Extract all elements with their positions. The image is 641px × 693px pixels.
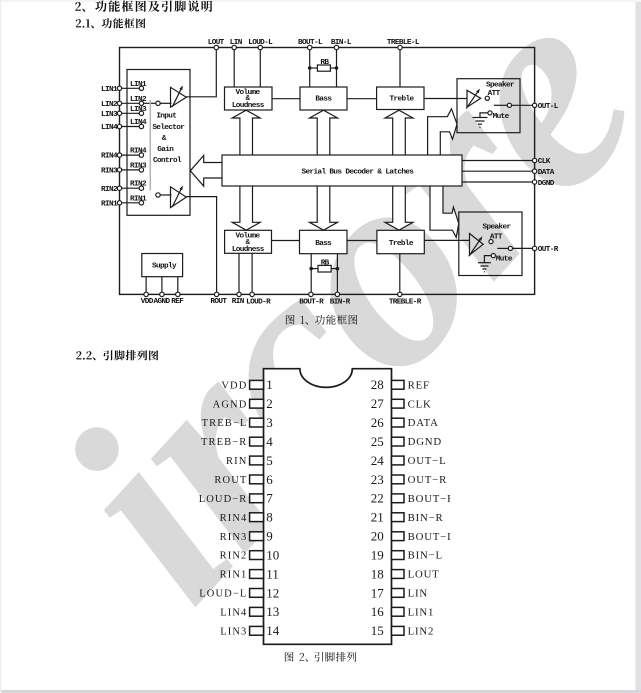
svg-text:RIN4: RIN4 (220, 513, 248, 524)
pin 8 box (250, 513, 264, 522)
svg-text:12: 12 (266, 585, 279, 600)
svg-text:28: 28 (371, 377, 384, 392)
selector contact RIN4 (139, 153, 143, 157)
svg-text:RIN4: RIN4 (101, 153, 118, 161)
svg-text:RIN2: RIN2 (101, 186, 118, 194)
svg-text:RIN1: RIN1 (130, 195, 147, 203)
svg-text:16: 16 (371, 604, 385, 619)
svg-text:Mute: Mute (496, 256, 513, 264)
svg-text:LOUD−R: LOUD−R (199, 494, 248, 505)
wire LOUD-R up to lower Volume (251, 253, 253, 294)
op-amp lower (left gain stage) (171, 186, 187, 208)
supply box (142, 254, 183, 277)
bass box lower (300, 230, 348, 253)
svg-text:RIN1: RIN1 (101, 200, 118, 208)
svg-text:RIN1: RIN1 (220, 570, 248, 581)
mute contact lower (491, 254, 495, 258)
switch blade lower (497, 247, 508, 249)
svg-text:BOUT−L: BOUT−L (408, 531, 455, 543)
svg-text:TREBLE-L: TREBLE-L (387, 39, 420, 47)
svg-text:RIN3: RIN3 (130, 162, 147, 170)
serial bus decoder and latches box (222, 155, 462, 186)
text heading 2.2 yinjiao pailie tu (76, 350, 158, 360)
svg-text:LIN4: LIN4 (130, 119, 147, 127)
terminal ROUT (214, 292, 218, 296)
terminal RIN1 (117, 201, 121, 205)
terminal RIN (237, 292, 241, 296)
terminal BIN-R (335, 292, 339, 296)
pin 4 box (250, 437, 264, 446)
svg-text:CLK: CLK (538, 158, 551, 166)
text caption figure 1 gongneng kuangtu (286, 315, 358, 325)
pin 7 box (250, 494, 264, 503)
selector bar (149, 100, 151, 191)
wire DGND (462, 181, 532, 183)
wire BOUT-R from lower Bass (310, 254, 312, 295)
wire Volume to Bass (272, 98, 300, 100)
svg-text:OUT−R: OUT−R (408, 474, 447, 486)
text heading 2 gongneng kuangtu ji yinjiao shuoming (75, 1, 212, 12)
terminal RIN4 (117, 153, 121, 157)
wire VDD (145, 277, 147, 295)
terminal OUT-L (532, 103, 536, 107)
svg-text:DGND: DGND (538, 180, 555, 188)
svg-text:7: 7 (266, 491, 273, 506)
svg-text:LOUD-R: LOUD-R (246, 299, 271, 307)
svg-text:LIN1: LIN1 (130, 81, 147, 89)
headings and captions (CJK as paths) (75, 1, 357, 662)
text caption figure 2 yinjiao pailie (285, 652, 357, 662)
svg-text:24: 24 (371, 453, 385, 468)
svg-text:25: 25 (371, 434, 384, 449)
svg-text:TREBLE-R: TREBLE-R (389, 299, 422, 307)
pin 3 box (250, 418, 264, 427)
terminal BOUT-R (309, 292, 313, 296)
terminal LOUD-L (258, 45, 262, 49)
op-amp lower speaker ATT (469, 234, 483, 257)
svg-text:8: 8 (266, 510, 273, 525)
RB resistor lower (311, 265, 337, 272)
bus arrow down to lower Treble (385, 186, 413, 230)
svg-text:TREB−L: TREB−L (202, 418, 248, 429)
svg-text:3: 3 (266, 415, 273, 430)
svg-text:6: 6 (266, 472, 273, 487)
svg-text:BIN−R: BIN−R (408, 512, 444, 524)
svg-text:LIN: LIN (408, 588, 428, 600)
svg-text:1: 1 (266, 377, 273, 392)
svg-text:ROUT: ROUT (214, 475, 247, 486)
svg-text:DGND: DGND (408, 436, 442, 448)
svg-text:2: 2 (266, 396, 273, 411)
selector contact RIN2 (139, 186, 143, 190)
terminal REF (176, 292, 180, 296)
pin 5 box (250, 456, 264, 465)
terminal LIN3 (117, 111, 121, 115)
svg-text:21: 21 (371, 510, 384, 525)
wire AGND (161, 277, 163, 295)
mute contact upper (488, 111, 492, 115)
svg-text:REF: REF (408, 379, 430, 391)
selector output contact upper (156, 101, 160, 105)
pin 2 box (250, 399, 264, 408)
pin label BOUT-L (408, 531, 455, 543)
svg-text:OUT-L: OUT-L (538, 103, 559, 111)
svg-text:LIN4: LIN4 (101, 124, 118, 132)
bus arrow right to lower speaker att (430, 186, 459, 237)
wire lower Bass to lower Treble (347, 240, 377, 242)
pin 10 box (250, 551, 264, 560)
svg-text:15: 15 (371, 623, 384, 638)
input selector and gain control box (127, 70, 190, 216)
text heading 2.1 gongneng kuangtu (76, 18, 146, 28)
svg-text:13: 13 (266, 604, 279, 619)
svg-text:5: 5 (266, 453, 273, 468)
svg-text:RB: RB (321, 259, 330, 267)
speaker ATT box upper (457, 79, 520, 133)
ground upper speaker ATT (473, 113, 488, 127)
wire selector contact to upper amp (160, 102, 171, 104)
pin 1 box (250, 380, 264, 389)
selector contact RIN1 (139, 201, 143, 205)
svg-text:23: 23 (371, 472, 384, 487)
pin 23 box (392, 475, 405, 484)
svg-text:OUT-R: OUT-R (538, 246, 559, 254)
svg-text:22: 22 (371, 491, 384, 506)
terminal BOUT-L (308, 45, 312, 49)
svg-text:AGND: AGND (213, 399, 248, 410)
wire BOUT-L down to Bass (309, 48, 311, 88)
svg-text:17: 17 (371, 585, 385, 600)
volume and loudness box upper (225, 87, 273, 110)
terminal CLK (532, 158, 536, 162)
op-amp upper speaker ATT (466, 89, 480, 109)
svg-text:DATA: DATA (408, 417, 439, 429)
node amp output upper (485, 96, 489, 100)
svg-text:DATA: DATA (538, 169, 555, 177)
svg-text:LIN2: LIN2 (408, 625, 435, 637)
terminal LIN (232, 45, 236, 49)
wire selector contact to lower amp (160, 194, 171, 196)
svg-text:LOUD-L: LOUD-L (248, 39, 273, 47)
svg-text:9: 9 (266, 529, 273, 544)
pin 20 box (392, 532, 405, 541)
pin 13 box (250, 607, 264, 616)
pin 15 box (392, 626, 405, 635)
terminal DATA (532, 169, 536, 173)
svg-text:BIN-R: BIN-R (330, 299, 351, 307)
wire to OUT-R (513, 247, 533, 249)
switch blade upper (494, 104, 508, 106)
svg-text:BIN−L: BIN−L (408, 550, 443, 562)
wire TREBLE-R from lower Treble (399, 254, 401, 295)
wire DATA (462, 170, 532, 172)
terminal VDD (144, 292, 148, 296)
svg-text:Serial Bus Decoder & Latches: Serial Bus Decoder & Latches (301, 168, 414, 176)
terminal BIN-L (334, 45, 338, 49)
wire REF (177, 277, 179, 295)
junction dot BIN-R / RB (336, 267, 340, 271)
wire BIN-L down to Bass (336, 48, 338, 88)
terminal LIN1 (117, 86, 121, 90)
speaker ATT box lower (459, 212, 522, 276)
svg-text:RIN3: RIN3 (101, 168, 118, 176)
svg-text:Bass: Bass (315, 96, 332, 104)
page edge shading (636, 0, 641, 693)
terminal RIN2 (117, 186, 121, 190)
treble box lower (377, 230, 424, 253)
svg-text:LIN: LIN (230, 39, 243, 47)
junction dot BOUT-R / RB (309, 267, 313, 271)
bus arrow up to Volume (232, 110, 260, 155)
wire LOUT from amp output (186, 48, 216, 97)
svg-text:RIN2: RIN2 (220, 551, 248, 562)
svg-text:11: 11 (266, 566, 279, 581)
node amp output lower (489, 240, 493, 244)
svg-text:CLK: CLK (408, 398, 432, 410)
wire Bass to Treble (347, 98, 377, 100)
pin label BOUT-R (408, 493, 455, 505)
svg-text:Treble: Treble (390, 95, 415, 103)
svg-text:RIN: RIN (226, 456, 247, 467)
bus arrow down to lower Bass (310, 186, 338, 230)
svg-text:18: 18 (371, 566, 384, 581)
svg-text:LOUT: LOUT (208, 39, 225, 47)
RB resistor upper (310, 65, 337, 71)
bus arrow left to input selector (190, 156, 222, 187)
svg-text:RIN2: RIN2 (130, 181, 147, 189)
treble box upper (377, 87, 424, 110)
terminal AGND (160, 292, 164, 296)
wire TREBLE-L down to Treble (399, 48, 401, 88)
pin 11 box (250, 570, 264, 579)
pin 26 box (392, 418, 405, 427)
svg-text:LIN3: LIN3 (220, 626, 247, 637)
svg-text:20: 20 (371, 529, 384, 544)
svg-text:RIN: RIN (232, 298, 245, 306)
wire lower Volume to lower Bass (272, 240, 300, 242)
svg-text:OUT−L: OUT−L (408, 455, 447, 467)
selector contact LIN4 (139, 124, 143, 128)
svg-text:BOUT-L: BOUT-L (298, 39, 323, 47)
pin 14 box (250, 626, 264, 635)
svg-text:RIN4: RIN4 (130, 148, 147, 156)
wire BIN-R from lower Bass (336, 254, 338, 295)
wire CLK (462, 160, 532, 162)
wire LIN2 to selector contact (144, 102, 156, 104)
functional block diagram outer border (120, 48, 535, 295)
wire LIN down to Volume (233, 48, 235, 88)
junction dot BOUT-L / RB (308, 66, 312, 70)
pin 16 box (392, 607, 405, 616)
selector contact LIN3 (139, 111, 143, 115)
input terminal wires LIN1-LIN4 RIN4-RIN1 (120, 88, 140, 203)
svg-text:ROUT: ROUT (210, 298, 227, 306)
svg-text:4: 4 (266, 434, 273, 449)
svg-text:AGND: AGND (154, 298, 171, 306)
selector output contact lower (156, 193, 160, 197)
bus arrow down to lower Volume (232, 186, 260, 230)
svg-text:14: 14 (266, 623, 280, 638)
svg-text:REF: REF (171, 298, 184, 306)
terminal LIN4 (117, 124, 121, 128)
svg-text:Mute: Mute (493, 113, 510, 121)
terminal LIN2 (117, 101, 121, 105)
bus arrow up to Treble (385, 110, 413, 155)
svg-text:LIN1: LIN1 (101, 86, 118, 94)
junction dot BIN-L / RB (335, 66, 339, 70)
pin 19 box (392, 551, 405, 560)
svg-text:LIN3: LIN3 (101, 111, 118, 119)
selector contact LIN2 (139, 101, 143, 105)
svg-text:LOUD−L: LOUD−L (199, 589, 247, 600)
wire lower Treble to lower speaker amp (424, 239, 469, 241)
svg-text:VDD: VDD (221, 380, 247, 391)
svg-text:LIN1: LIN1 (408, 606, 435, 618)
bus arrow up to Bass (310, 110, 338, 155)
terminal DGND (532, 180, 536, 184)
pin 28 box (392, 380, 405, 389)
terminal TREBLE-R (398, 292, 402, 296)
terminal OUT-R (532, 246, 536, 250)
wire ROUT from lower amp output (186, 197, 216, 295)
wire to OUT-L (512, 104, 533, 106)
ground lower speaker ATT (478, 256, 491, 272)
pin 18 box (392, 570, 405, 579)
svg-text:19: 19 (371, 548, 384, 563)
pin 21 box (392, 513, 405, 522)
svg-text:LIN4: LIN4 (220, 607, 247, 618)
selector contact RIN3 (139, 168, 143, 172)
pin 25 box (392, 437, 405, 446)
pin 27 box (392, 399, 405, 408)
svg-text:BIN-L: BIN-L (331, 39, 352, 47)
svg-text:RIN3: RIN3 (220, 532, 248, 543)
terminal TREBLE-L (398, 45, 402, 49)
IC body DIP-28 (264, 369, 392, 645)
svg-text:RB: RB (320, 59, 329, 67)
svg-text:VDD: VDD (141, 298, 154, 306)
terminal LOUT (214, 45, 218, 49)
svg-text:Bass: Bass (315, 240, 332, 248)
op-amp upper (left gain stage) (171, 85, 187, 107)
volume and loudness box lower (225, 230, 272, 253)
svg-text:BOUT-R: BOUT-R (299, 299, 324, 307)
svg-text:TREB−R: TREB−R (201, 437, 247, 448)
pin 12 box (250, 589, 264, 598)
wire RIN up to lower Volume (238, 253, 240, 294)
svg-text:LIN3: LIN3 (130, 106, 147, 114)
svg-text:26: 26 (371, 415, 385, 430)
svg-text:LIN2: LIN2 (101, 101, 118, 109)
svg-text:27: 27 (371, 396, 385, 411)
pin 6 box (250, 475, 264, 484)
switch pivot lower (508, 246, 512, 250)
selector contact LIN1 (139, 86, 143, 90)
bass box upper (300, 87, 347, 110)
pin 9 box (250, 532, 264, 541)
svg-text:Supply: Supply (152, 263, 177, 271)
svg-text:10: 10 (266, 548, 279, 563)
pin 24 box (392, 456, 405, 465)
svg-text:BOUT−R: BOUT−R (408, 493, 455, 505)
bus arrow right to upper speaker att (428, 109, 457, 155)
svg-text:Treble: Treble (389, 240, 414, 248)
svg-text:LIN2: LIN2 (130, 96, 147, 104)
svg-text:LOUT: LOUT (408, 569, 440, 581)
pin 22 box (392, 494, 405, 503)
wire LOUD-L down to Volume (259, 48, 261, 88)
pin 17 box (392, 589, 405, 598)
terminal LOUD-R (250, 292, 254, 296)
wire Treble to speaker amp (424, 98, 467, 100)
switch pivot upper (507, 103, 511, 107)
terminal RIN3 (117, 168, 121, 172)
